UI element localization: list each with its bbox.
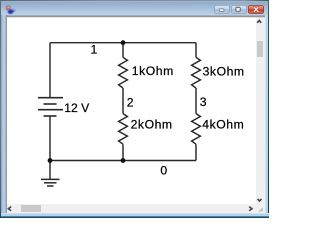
svg-text:2kOhm: 2kOhm <box>131 117 173 131</box>
horizontal scrollbar <box>7 204 265 214</box>
ground line 1 <box>41 178 60 180</box>
up arrow <box>257 21 261 23</box>
wire mid-top <box>122 43 124 58</box>
svg-text:12 V: 12 V <box>64 101 90 115</box>
svg-text:2: 2 <box>127 95 134 109</box>
left arrow <box>8 207 11 211</box>
wire right-top <box>195 43 197 58</box>
battery V1 plate short bottom <box>44 115 57 117</box>
junction node 1 dot <box>121 40 126 45</box>
wire right-center <box>195 88 197 114</box>
maximize button <box>231 5 247 14</box>
ground line 3 <box>47 185 54 187</box>
svg-text:1kOhm: 1kOhm <box>132 64 174 78</box>
vertical scrollbar <box>256 17 266 213</box>
scrollbar arrows + grip <box>0 0 269 218</box>
wire ground stub <box>49 161 51 180</box>
circuit drawing <box>7 17 256 204</box>
junction ground dot <box>48 158 53 163</box>
wire left-bottom <box>49 117 51 161</box>
svg-text:0: 0 <box>160 163 167 177</box>
battery V1 plate short <box>44 103 57 105</box>
resistor R4 4kOhm <box>192 114 201 145</box>
wire top <box>50 42 196 44</box>
wire mid-bottom <box>122 144 124 160</box>
minimize button <box>214 5 230 14</box>
resistor R1 1kOhm <box>119 57 128 88</box>
resistor R3 3kOhm <box>192 57 201 88</box>
svg-text:4kOhm: 4kOhm <box>202 118 244 132</box>
resize grip <box>258 207 263 211</box>
ground line 2 <box>44 182 57 184</box>
wire right-bottom <box>195 144 197 160</box>
svg-text:3kOhm: 3kOhm <box>203 64 245 78</box>
battery V1 plate long bottom <box>38 109 63 111</box>
app icon <box>4 3 18 16</box>
wire mid-center <box>122 88 124 114</box>
right arrow <box>249 207 252 211</box>
battery V1 plate long top <box>38 97 63 99</box>
wire left-top <box>49 43 51 97</box>
svg-text:1: 1 <box>91 43 98 57</box>
down arrow <box>258 199 262 201</box>
resistor R2 2kOhm <box>119 114 128 145</box>
close button <box>248 5 264 14</box>
junction node 0 dot <box>121 158 126 163</box>
svg-text:3: 3 <box>200 95 207 109</box>
wire bottom <box>50 160 196 162</box>
